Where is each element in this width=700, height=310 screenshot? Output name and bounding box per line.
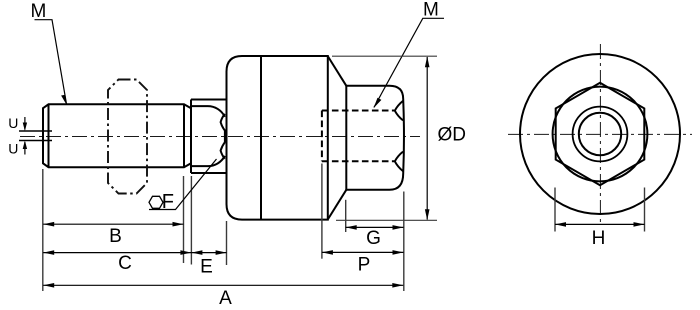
hexagon front view [556,83,645,185]
dimension A [43,284,403,286]
extension line E right [226,221,228,265]
dimension B [43,223,183,225]
arrow U lower [24,142,26,155]
extension line right (G P A) [403,192,405,292]
hidden thread top line [322,110,394,112]
leader F [149,159,217,210]
outer circle body OD [520,54,680,214]
svg-text:P: P [358,255,371,276]
thread major circle [573,107,628,162]
extension line H right [644,188,646,232]
svg-text:ØD: ØD [438,124,467,145]
right view centerline vertical [599,44,601,223]
label F hex symbol [149,196,163,208]
extension line OD top [332,55,437,57]
svg-text:A: A [219,288,232,309]
thread minor circle [579,113,621,155]
dimension P [322,251,404,253]
threaded stud body [43,104,191,167]
hex nut: top notch [395,101,403,121]
arrow U upper [24,117,26,130]
extension line H left [554,188,556,232]
svg-text:M: M [31,1,47,22]
hex section F: top flat arc [191,106,225,117]
wire U upper offset line [19,130,52,132]
extension line B right [183,176,185,263]
stud right chamfer ring [183,104,185,167]
cone chamfer top [328,57,346,86]
hex section F: bottom notch [221,142,225,159]
svg-text:B: B [109,226,122,247]
wire U lower offset line [19,140,52,142]
hex nut [346,86,404,190]
extension line left (B C A) [42,169,44,291]
hidden thread bottom line [322,160,394,162]
cylindrical body [227,56,328,220]
leader M2 [374,18,444,107]
extension line P left [321,164,323,259]
extension line G left [345,200,347,232]
body inner line [260,56,262,220]
svg-text:U: U [8,115,18,131]
extension line OD bottom [336,219,437,221]
svg-text:U: U [8,141,18,157]
extension line C/E at 191 [190,176,192,265]
hex nut: bottom notch [395,152,403,172]
dimension E [191,252,226,254]
dimension H [555,223,645,225]
hex section F: top notch [221,114,225,130]
dimension G [346,226,404,228]
svg-text:H: H [592,228,606,249]
hidden thread end line [321,111,323,162]
dimension C [43,252,191,254]
phantom hex outline on stud [108,80,147,194]
nut chamfer circle [553,87,648,182]
stud left chamfer ring [48,104,50,167]
svg-text:G: G [366,228,381,249]
centerline left view [20,136,420,138]
dimension OD [426,57,428,220]
svg-text:C: C [118,253,132,274]
hex section F: middle face edge [224,130,226,143]
svg-text:M: M [423,0,439,21]
right view centerline horizontal [508,133,692,135]
hex section F: silhouette [191,100,227,174]
cone chamfer bottom [328,190,346,219]
svg-text:E: E [200,257,213,278]
leader M1 [35,20,67,104]
hex section F: bottom flat arc [191,156,225,166]
